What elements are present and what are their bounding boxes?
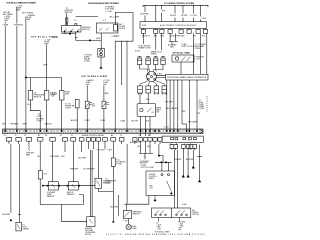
- wire TCC down: [112, 166, 114, 222]
- long vertical V2: [121, 41, 123, 85]
- svg-text:ELECTRONIC SPARK TIMING DISTRI: ELECTRONIC SPARK TIMING DISTRIBUTOR: [167, 76, 207, 79]
- spark plug 4: [161, 57, 165, 70]
- label S1: [92, 103, 95, 107]
- connector circles: [100, 50, 103, 53]
- svg-text:BLOCK: BLOCK: [85, 234, 92, 236]
- svg-text:8 BLK: 8 BLK: [135, 51, 141, 53]
- svg-text:B2: B2: [38, 135, 40, 137]
- label pump: [132, 226, 138, 230]
- ECM pin squares: [141, 29, 207, 33]
- svg-text:PPL WHT: PPL WHT: [97, 150, 106, 152]
- strip right end notch: [200, 129, 204, 134]
- servo text: [149, 174, 157, 189]
- svg-text:HOT IN RUN & START: HOT IN RUN & START: [81, 75, 108, 78]
- wire LPS column: [39, 144, 41, 171]
- svg-text:PPL: PPL: [178, 229, 181, 231]
- svg-text:DK GRN WHT: DK GRN WHT: [83, 168, 95, 170]
- arrow to harness: [154, 195, 156, 201]
- svg-text:3 PNK/BLK: 3 PNK/BLK: [14, 25, 24, 27]
- svg-text:D2: D2: [139, 135, 141, 137]
- svg-text:BLK: BLK: [61, 156, 65, 158]
- svg-text:CONN: CONN: [84, 61, 90, 63]
- oxygen sensor component: [95, 178, 102, 188]
- collector bus under module: [139, 144, 153, 156]
- svg-text:C 200: C 200: [164, 127, 169, 129]
- EST distributor box: [166, 74, 208, 80]
- cruise servo box: [146, 171, 174, 195]
- label module right: [156, 106, 162, 113]
- svg-text:SWITCH: SWITCH: [133, 214, 141, 216]
- svg-text:BLK: BLK: [147, 146, 151, 148]
- fuse symbol F1: [66, 18, 68, 22]
- svg-text:SOL: SOL: [150, 188, 153, 190]
- wire W2 far-left: [4, 22, 6, 129]
- park neutral switch box: [123, 210, 131, 218]
- LPS component: [38, 171, 42, 180]
- labels above R2 wires: [174, 159, 194, 161]
- svg-text:SW: SW: [156, 111, 159, 113]
- svg-text:SWITCH: SWITCH: [65, 12, 73, 14]
- svg-text:PAIR: PAIR: [26, 154, 31, 157]
- svg-text:ECM: ECM: [142, 25, 146, 27]
- AC diode area label: [110, 16, 120, 19]
- wire below B1 jog: [30, 100, 40, 129]
- ground link: [62, 205, 87, 222]
- lower plug 2: [146, 86, 151, 104]
- label comp right: [65, 92, 71, 96]
- svg-text:BLK WHT: BLK WHT: [78, 157, 87, 159]
- svg-text:BLK/WHT: BLK/WHT: [2, 214, 11, 216]
- switch symbols right cell: [176, 214, 178, 216]
- label oxygen: [103, 180, 111, 184]
- svg-text:LINK: LINK: [65, 94, 70, 96]
- TCC component: [111, 158, 115, 166]
- wire sensors col2: [65, 144, 73, 182]
- lower plug 4: [162, 86, 167, 95]
- label ignition switch: [82, 27, 91, 31]
- svg-text:C RED: C RED: [84, 120, 90, 122]
- svg-text:PPL WHT: PPL WHT: [165, 101, 174, 103]
- resistor mid: [75, 99, 79, 108]
- below switches wires: [158, 218, 179, 222]
- double ground wires: [90, 150, 92, 217]
- lower plug 3: [154, 86, 159, 95]
- svg-text:90-93 2.5L ENGINE WIRING DI: 90-93 2.5L ENGINE WIRING DIAGRAM (S10 SO…: [106, 233, 205, 236]
- terminal dot W-left: [10, 220, 12, 222]
- wire below B2: [46, 100, 48, 129]
- spark plug 3: [154, 57, 158, 70]
- module circle: [140, 108, 143, 111]
- svg-text:PNK: PNK: [182, 111, 186, 113]
- sender component B2: [44, 91, 49, 101]
- wire oxygen down-left: [98, 188, 113, 191]
- to generator text: [105, 179, 117, 185]
- pin number labels row: [4, 134, 151, 137]
- wires mid cols: [82, 144, 105, 178]
- EST pins down: [167, 80, 197, 129]
- ECM pin labels row: [142, 36, 206, 38]
- plug wires into distributor: [140, 69, 163, 72]
- svg-text:SWITCH: SWITCH: [192, 214, 199, 216]
- servo circles: [161, 174, 163, 176]
- left wires below strip: [10, 144, 12, 213]
- labels mid row2: [70, 150, 113, 171]
- svg-text:C1: C1: [24, 135, 26, 137]
- svg-text:CLUTCH CONN: CLUTCH CONN: [141, 167, 155, 169]
- svg-text:38 BLK/PNK RED: 38 BLK/PNK RED: [170, 36, 185, 38]
- labels BLK under module plugs: [137, 146, 151, 148]
- ignition coil box: [172, 55, 194, 62]
- svg-text:A BLK/R: A BLK/R: [71, 119, 78, 122]
- label TAN BLK row: [165, 101, 200, 114]
- splice tick: [18, 214, 21, 216]
- servo lever: [167, 181, 172, 192]
- cruise bracket: [143, 5, 208, 7]
- wire W4 fuse C500 down: [46, 45, 48, 91]
- svg-text:2 BLK/WHT: 2 BLK/WHT: [50, 156, 60, 158]
- right arrows down: [199, 145, 201, 183]
- svg-text:CONN: CONN: [199, 108, 205, 110]
- wire K1 right pin down to bus: [76, 33, 101, 49]
- wire W1 left: [16, 7, 18, 129]
- label TCC: [116, 160, 126, 166]
- right lower wires: [182, 150, 194, 178]
- module wire labels: [120, 120, 150, 123]
- svg-text:T DD: T DD: [123, 220, 128, 222]
- servo dot: [171, 193, 173, 195]
- pin letters under lower box: [171, 142, 193, 145]
- K2 internal: [99, 28, 109, 31]
- label stack blower conn: [37, 114, 45, 123]
- module switch: [147, 108, 153, 112]
- svg-text:C 200: C 200: [201, 18, 206, 20]
- svg-text:CONN: CONN: [65, 107, 71, 109]
- lower connector box right: [162, 136, 203, 142]
- right plugs below lower box: [170, 145, 197, 150]
- label right stack1: [181, 43, 195, 48]
- wire branch junction to W3: [26, 78, 62, 91]
- wire gauge fuse down: [86, 85, 88, 101]
- label diode: [119, 23, 126, 30]
- svg-text:COMP CLUTCH: COMP CLUTCH: [181, 46, 195, 48]
- knock sensor box: [68, 182, 78, 190]
- svg-text:TAN BLK: TAN BLK: [171, 107, 179, 110]
- label twisted: [26, 153, 35, 157]
- svg-text:C 2: C 2: [74, 20, 77, 22]
- label HOT IN RUN stack: [22, 13, 36, 21]
- spark plug 1: [137, 57, 141, 70]
- label fuel sender: [22, 225, 29, 231]
- label AC switches: [192, 209, 199, 216]
- wire ECM pin1 down: [143, 33, 161, 50]
- alternator feed component: [59, 91, 64, 101]
- svg-text:CONN: CONN: [105, 183, 111, 185]
- svg-text:E1: E1: [60, 135, 62, 137]
- svg-text:12: 12: [52, 96, 54, 98]
- ground glyph under bus: [144, 157, 147, 159]
- svg-text:HOT AT ALL TIMES: HOT AT ALL TIMES: [173, 52, 191, 55]
- svg-text:ELECTRONIC CONTROL MODULE: ELECTRONIC CONTROL MODULE: [160, 25, 197, 27]
- svg-text:BLK/PNK: BLK/PNK: [186, 159, 194, 161]
- label comp left: [52, 94, 58, 98]
- lower plug 1: [138, 86, 143, 104]
- switch symbols left cell: [155, 214, 157, 216]
- twisted pair squiggle: [28, 144, 30, 151]
- svg-text:A6: A6: [111, 134, 113, 137]
- wire L loop top: [76, 16, 98, 18]
- distributor circle: [147, 72, 157, 82]
- wires ECM right pins down to EST: [193, 33, 207, 74]
- svg-text:GRN: GRN: [160, 36, 165, 38]
- label stack right fuse: [103, 80, 109, 86]
- svg-text:5 BRN: 5 BRN: [3, 25, 9, 27]
- label esc stack: [139, 45, 152, 49]
- servo top bus: [155, 162, 172, 171]
- connector tick C210: [75, 37, 78, 39]
- ground loop bottom-left: [40, 179, 83, 205]
- label B1: [34, 93, 45, 99]
- wires S1 S2 down: [77, 108, 104, 129]
- wire right fuse down: [103, 85, 105, 101]
- oil press connector text: [65, 103, 75, 109]
- svg-text:PNK/BLK: PNK/BLK: [11, 124, 20, 126]
- svg-text:SENSOR: SENSOR: [47, 196, 55, 198]
- svg-text:CONN: CONN: [116, 164, 122, 166]
- svg-text:4 PPL/WHT: 4 PPL/WHT: [188, 121, 198, 123]
- strip pin marks: [5, 130, 198, 132]
- svg-text:SET/WOT: SET/WOT: [142, 36, 151, 38]
- coil circles: [175, 57, 178, 60]
- svg-text:+ C 100: + C 100: [113, 35, 120, 37]
- svg-text:HOT AT ALL TIMES: HOT AT ALL TIMES: [155, 231, 171, 234]
- fuel sender component: [16, 222, 22, 231]
- jog wire: [182, 124, 187, 129]
- wires distributor to lower plugs: [140, 81, 164, 86]
- junction dots sensor bus: [42, 185, 43, 186]
- svg-text:CONN: CONN: [37, 121, 43, 123]
- svg-text:C BLK: C BLK: [100, 120, 106, 122]
- svg-text:ENGINE CONTROL WIRING: ENGINE CONTROL WIRING: [82, 135, 105, 137]
- wire plug160 to servo bus: [159, 144, 163, 162]
- svg-text:CONN: CONN: [195, 48, 201, 50]
- lower box pins: [171, 137, 197, 139]
- svg-text:PPL: PPL: [162, 11, 166, 13]
- svg-text:BLK/PNK: BLK/PNK: [110, 206, 118, 208]
- K1 top pins: [66, 24, 68, 26]
- wire K1 left pin down: [61, 32, 76, 34]
- svg-text:39 RED: 39 RED: [181, 15, 188, 17]
- svg-text:WIRES: WIRES: [151, 53, 158, 55]
- svg-text:F2: F2: [71, 135, 73, 137]
- svg-text:SWITCH: SWITCH: [82, 29, 90, 31]
- wire ignition feed with fuse: [66, 13, 68, 25]
- diode inner element in K2: [114, 25, 118, 32]
- svg-text:BLK: BLK: [146, 121, 150, 123]
- wire gen branch: [118, 195, 120, 216]
- svg-text:T GRY: T GRY: [107, 150, 113, 152]
- cruise wire labels: [141, 11, 207, 20]
- label knock sensor: [67, 192, 75, 196]
- svg-text:BLK PPL: BLK PPL: [131, 121, 138, 123]
- svg-text:5 BRN: 5 BRN: [104, 93, 110, 95]
- svg-text:(S10): (S10): [96, 38, 101, 40]
- svg-text:2 TAN: 2 TAN: [120, 120, 126, 123]
- svg-text:TO CRUISE CONTROL SYSTEM: TO CRUISE CONTROL SYSTEM: [164, 3, 194, 5]
- svg-text:4 GRY: 4 GRY: [182, 204, 188, 206]
- svg-text:26 BLK: 26 BLK: [170, 15, 177, 17]
- wire sensors col1: [52, 144, 54, 182]
- svg-text:SW: SW: [92, 105, 95, 107]
- svg-text:PUMP: PUMP: [132, 228, 138, 230]
- svg-text:GRY: GRY: [2, 124, 7, 126]
- switch symbol S1: [85, 101, 92, 108]
- label coolant sensor: [47, 191, 57, 198]
- label to fuel pump relay col: [199, 100, 205, 110]
- svg-text:A/C COMP: A/C COMP: [110, 16, 120, 19]
- svg-text:DIODE: DIODE: [119, 28, 126, 30]
- svg-text:BLK: BLK: [202, 36, 206, 38]
- plug connectors row: [6, 138, 162, 144]
- below switches labels left: [157, 221, 163, 230]
- headings labels above left texts: [105, 6, 115, 13]
- svg-text:+ PPL: + PPL: [157, 228, 162, 230]
- wire coil to EST box: [180, 62, 182, 74]
- fuel pump motor: [128, 219, 130, 225]
- labels wire colors row: [71, 119, 106, 122]
- svg-text:SPARK CONT: SPARK CONT: [139, 46, 152, 49]
- ECM pin stubs: [143, 28, 205, 29]
- svg-text:LPS: LPS: [44, 173, 48, 175]
- svg-text:A/C HEAD: A/C HEAD: [168, 43, 177, 46]
- label fuse link C500: [44, 39, 51, 45]
- svg-text:15: 15: [15, 135, 17, 137]
- coolant sensor box: [48, 182, 58, 190]
- svg-text:BLK: BLK: [37, 156, 41, 158]
- wire distributor to EST box: [156, 75, 165, 77]
- svg-text:C3: C3: [120, 135, 122, 137]
- svg-text:BRN WHT: BRN WHT: [70, 168, 79, 170]
- to AC text: [141, 164, 155, 169]
- svg-text:SENSOR: SENSOR: [67, 194, 75, 196]
- svg-text:BLK: BLK: [28, 104, 32, 106]
- label right stack2: [195, 43, 208, 50]
- wire loop rect: [115, 12, 133, 41]
- bracket mid pins: [169, 33, 178, 45]
- switch symbol S2: [102, 101, 109, 108]
- svg-text:ORN: ORN: [43, 64, 48, 66]
- svg-text:COIL: COIL: [196, 59, 200, 61]
- label ignition coil: [196, 56, 205, 60]
- terminal arrow below connector: [100, 57, 102, 68]
- wires K2 pins down: [115, 40, 133, 42]
- label engine ground: [85, 228, 96, 236]
- svg-text:D: D: [190, 143, 192, 145]
- svg-text:SERVO: SERVO: [149, 178, 156, 180]
- below switches labels right: [178, 221, 185, 231]
- ECM box: [140, 22, 207, 29]
- AC switch assembly box: [152, 208, 191, 218]
- svg-text:B: B: [176, 143, 177, 145]
- module wires down: [141, 116, 151, 136]
- cruise drop wires: [145, 5, 201, 21]
- divider: [171, 208, 173, 218]
- spark plug 2: [146, 57, 150, 70]
- label B2: [50, 92, 57, 97]
- svg-text:HOT IN RUN, BULB TEST OR START: HOT IN RUN, BULB TEST OR START: [88, 2, 120, 5]
- svg-text:BLK: BLK: [137, 146, 141, 148]
- relay box K1: [62, 25, 82, 32]
- wires servo to R2: [175, 150, 178, 208]
- label ECM fuse stack: [3, 11, 13, 22]
- svg-text:GAUGE: GAUGE: [22, 228, 29, 231]
- wire above comp: [61, 78, 63, 91]
- wire comp down: [61, 100, 63, 129]
- sender component B1: [28, 91, 33, 101]
- park neutral feed: [124, 144, 149, 210]
- svg-text:BLK/PNK: BLK/PNK: [141, 14, 150, 16]
- ignition module box: [137, 104, 156, 117]
- svg-text:A BLK/WHT: A BLK/WHT: [130, 141, 140, 144]
- svg-text:SWITCH: SWITCH: [34, 97, 42, 99]
- label stack gauges fuse: [86, 79, 95, 86]
- long vertical V3: [126, 41, 128, 129]
- TCC solenoid column: [112, 144, 114, 158]
- wire W3: [25, 17, 27, 129]
- relay box K2: [96, 23, 118, 33]
- ignition coil feed label: [65, 8, 74, 14]
- svg-text:2 C 200: 2 C 200: [190, 15, 197, 17]
- svg-text:HOT AT ALL TIMES HOT IN START: HOT AT ALL TIMES HOT IN START: [7, 1, 37, 4]
- svg-text:10: 10: [4, 135, 6, 137]
- svg-text:DIST: DIST: [146, 99, 151, 101]
- bulkhead connector strip: [3, 129, 204, 134]
- fuel pump relay connector box: [98, 49, 105, 58]
- sensor bus: [43, 185, 95, 187]
- svg-text:D4: D4: [45, 135, 47, 137]
- dashed fuel pump prime wire: [206, 96, 208, 112]
- svg-text:BRN: BRN: [23, 124, 28, 126]
- label PN switch: [133, 211, 143, 216]
- svg-text:28 RED: 28 RED: [52, 37, 59, 39]
- svg-text:+ C 100: + C 100: [105, 11, 112, 13]
- svg-text:B4: B4: [148, 135, 150, 137]
- fuse block label C100 top-left: [16, 6, 23, 12]
- svg-text:TAN BLK: TAN BLK: [45, 122, 53, 125]
- K1 internal: [64, 29, 80, 31]
- svg-text:C 2: C 2: [103, 20, 106, 22]
- svg-text:PPL: PPL: [197, 113, 200, 115]
- label spark plugs: [151, 50, 163, 55]
- long vertical V1: [114, 41, 116, 129]
- label to fuel pump relay connector: [84, 54, 92, 62]
- engine ground box: [87, 217, 95, 227]
